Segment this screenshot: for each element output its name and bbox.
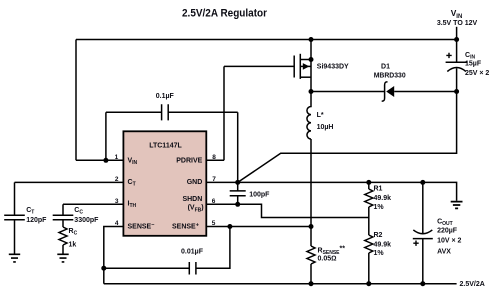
wire gate vertical <box>223 66 225 160</box>
svg-text:15µF: 15µF <box>465 61 482 68</box>
wire left vertical from rail to pin 1 <box>75 40 77 161</box>
svg-text:10µH: 10µH <box>317 124 334 131</box>
svg-text:49.9k: 49.9k <box>374 195 392 202</box>
ground CT <box>9 254 20 262</box>
wire 0.1uF left drop <box>105 112 107 160</box>
svg-text:1k: 1k <box>69 241 77 248</box>
svg-text:0.1µF: 0.1µF <box>156 93 175 100</box>
svg-text:3300pF: 3300pF <box>74 217 99 224</box>
svg-text:120pF: 120pF <box>26 217 47 224</box>
svg-text:2.5V/2A: 2.5V/2A <box>460 281 485 288</box>
svg-text:R1: R1 <box>374 186 383 193</box>
node pin1/0.1uF junction <box>103 158 108 163</box>
capacitor 0.1uF <box>106 111 162 113</box>
ground RC <box>57 254 68 262</box>
resistor RSENSE 0.05ohm <box>307 246 315 264</box>
capacitor CT 120pF <box>14 182 16 215</box>
wire switch-node vertical down <box>310 139 312 246</box>
capacitor COUT <box>422 182 424 233</box>
transistor Q1 Si9433DY <box>293 56 295 78</box>
svg-text:8: 8 <box>212 154 216 161</box>
svg-text:220µF: 220µF <box>437 228 458 235</box>
resistor RC 1k <box>59 227 67 245</box>
resistor R1 49.9k <box>368 182 370 189</box>
svg-text:1: 1 <box>115 154 119 161</box>
svg-text:SHDN: SHDN <box>182 196 202 203</box>
svg-text:SENSE+: SENSE+ <box>172 223 199 231</box>
resistor R2 49.9k <box>365 235 373 253</box>
svg-text:MBRD330: MBRD330 <box>374 72 406 79</box>
inductor L* 10uH <box>307 92 311 139</box>
wire pin 4 SENSE- <box>104 227 124 269</box>
wire pin 6 SHDN/VFB to divider <box>206 204 368 217</box>
capacitor 100pF <box>237 182 239 190</box>
svg-text:AVX: AVX <box>437 249 451 256</box>
svg-text:PDRIVE: PDRIVE <box>176 158 202 165</box>
wire ground net: diagonal from GND pin junction up to CIN bottom <box>238 92 457 183</box>
wire drain row to diode <box>311 91 384 93</box>
svg-text:LTC1147L: LTC1147L <box>149 142 182 149</box>
wire pin 7 GND row <box>206 182 456 200</box>
svg-text:SENSE−: SENSE− <box>128 223 155 231</box>
IC U1 LTC1147L <box>123 131 206 236</box>
wire down to output rail <box>103 268 105 284</box>
svg-text:L*: L* <box>317 112 324 119</box>
svg-text:100pF: 100pF <box>249 191 270 198</box>
capacitor 0.01uF <box>104 267 190 269</box>
svg-text:49.9k: 49.9k <box>374 241 392 248</box>
capacitor CIN <box>456 27 458 62</box>
svg-text:10V × 2: 10V × 2 <box>437 237 461 244</box>
wire pin 5 SENSE+ <box>206 226 311 228</box>
svg-text:3.5V TO 12V: 3.5V TO 12V <box>437 20 478 27</box>
svg-text:D1: D1 <box>381 64 390 71</box>
svg-text:25V × 2: 25V × 2 <box>465 70 489 77</box>
wire pin 8 PDRIVE <box>206 159 224 161</box>
svg-text:GND: GND <box>187 179 203 186</box>
svg-text:1%: 1% <box>374 204 385 211</box>
svg-text:R2: R2 <box>374 232 383 239</box>
wire pin 2 CT <box>15 181 124 183</box>
svg-text:1%: 1% <box>374 250 385 257</box>
ground top right <box>451 202 463 209</box>
wire pin 3 ITH <box>63 203 123 205</box>
diode D1 MBRD330 <box>386 86 394 97</box>
svg-text:0.01µF: 0.01µF <box>181 249 204 256</box>
svg-text:2.5V/2A Regulator: 2.5V/2A Regulator <box>182 7 268 19</box>
wire 0.1uF to GND pin drop <box>237 112 239 182</box>
node SENSE- / 0.01uF junction <box>101 266 106 271</box>
capacitor CC 3300pF <box>62 204 64 215</box>
wire gate horizontal <box>224 65 294 67</box>
wire pin 1 VIN <box>76 159 123 161</box>
svg-text:Si9433DY: Si9433DY <box>317 63 349 70</box>
wire output bottom rail <box>104 283 457 285</box>
svg-text:0.05Ω: 0.05Ω <box>318 256 337 263</box>
wire VIN top rail <box>76 39 457 41</box>
